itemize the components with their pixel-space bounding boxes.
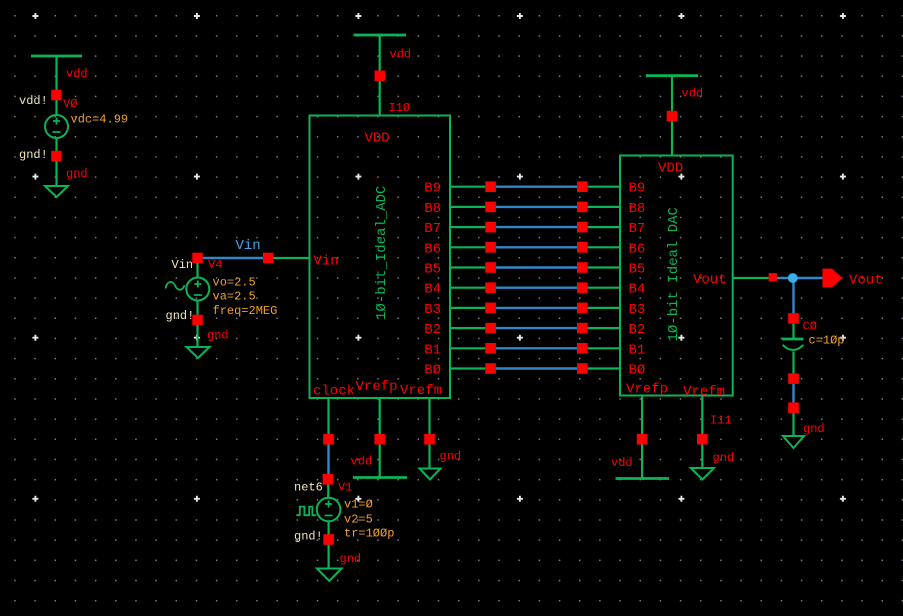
svg-text:B1: B1 — [629, 342, 646, 358]
svg-text:BØ: BØ — [629, 363, 646, 379]
wire stub B7 (DAC side) — [588, 226, 620, 228]
svg-text:clock: clock — [313, 384, 355, 400]
svg-text:gnd: gnd — [803, 422, 825, 436]
power symbol vdd (ADC Vrefp) — [353, 476, 407, 479]
pin square V0 plus terminal — [51, 90, 62, 101]
wire V1 to ground — [328, 545, 330, 569]
pin square ADC VDD supply — [375, 71, 386, 82]
wire V4 top — [196, 263, 198, 278]
svg-text:Vrefm: Vrefm — [683, 384, 725, 400]
svg-text:gnd: gnd — [340, 552, 362, 566]
svg-text:B9: B9 — [424, 181, 441, 197]
wire vdd bar to V0 plus terminal — [55, 56, 57, 116]
svg-text:B7: B7 — [424, 221, 441, 237]
wire V1 bottom — [328, 521, 330, 534]
wire Vin to ADC input — [274, 257, 310, 259]
wire B7 bus (blue) — [496, 226, 577, 228]
wire ADC Vrefm to ground — [428, 445, 430, 469]
wire B2 bus (blue) — [496, 327, 577, 329]
pin square B5 (ADC) — [485, 262, 496, 273]
pin square B2 (ADC) — [485, 323, 496, 334]
wire stub B6 (DAC side) — [588, 246, 620, 248]
svg-text:vdd: vdd — [611, 456, 633, 470]
wire stub B2 (ADC side) — [450, 327, 485, 329]
pin square C0 top terminal — [788, 313, 799, 324]
svg-text:gnd: gnd — [207, 329, 229, 343]
svg-text:gnd!: gnd! — [294, 530, 323, 544]
pin square DAC Vrefm — [697, 434, 708, 445]
svg-text:B5: B5 — [629, 262, 646, 278]
svg-text:c=1Øp: c=1Øp — [809, 334, 845, 348]
svg-text:gnd: gnd — [713, 451, 735, 465]
svg-text:1Ø-bit_Ideal_ADC: 1Ø-bit_Ideal_ADC — [374, 186, 390, 320]
svg-text:gnd!: gnd! — [19, 148, 48, 162]
wire DAC Vrefp down — [641, 396, 643, 435]
wire Vout from DAC — [733, 277, 769, 279]
wire C0 to gnd (blue net) — [792, 384, 794, 403]
pin square V4 minus terminal — [192, 315, 203, 326]
pin square B4 (ADC) — [485, 282, 496, 293]
power symbol vdd (top of ADC) — [354, 34, 407, 37]
pulse glyph of source V1 — [296, 507, 316, 516]
pin square B8 (DAC) — [577, 202, 588, 213]
wire DAC Vrefp to vdd — [641, 445, 643, 479]
wire to ground symbol — [792, 413, 794, 436]
pin square V1 minus terminal — [323, 534, 334, 545]
pin square B7 (ADC) — [485, 222, 496, 233]
svg-text:Vrefp: Vrefp — [356, 379, 398, 395]
wire B1 bus (blue) — [496, 347, 577, 349]
svg-text:B6: B6 — [424, 241, 441, 257]
pin square B0 (ADC) — [485, 363, 496, 374]
power symbol vdd (top of V0) — [31, 55, 82, 58]
pin square B0 (DAC) — [577, 363, 588, 374]
sine voltage source V4 — [186, 278, 209, 301]
svg-text:1Ø-bit Ideal DAC: 1Ø-bit Ideal DAC — [666, 207, 682, 341]
svg-text:I11: I11 — [710, 414, 732, 428]
ground symbol (V1) — [317, 569, 342, 582]
svg-text:vdd: vdd — [351, 455, 373, 469]
ground symbol (DAC Vrefm) — [691, 468, 714, 480]
bus bit B8 ADC to DAC — [424, 201, 645, 217]
svg-text:Vin: Vin — [314, 254, 339, 270]
wire B3 bus (blue) — [496, 307, 577, 309]
wire stub B3 (ADC side) — [450, 307, 485, 309]
pin square ADC Vrefm — [424, 434, 435, 445]
wire DAC Vrefm to ground — [701, 445, 703, 469]
svg-text:BØ: BØ — [424, 363, 441, 379]
ground symbol (C0) — [783, 436, 804, 448]
pin square Vin wire end — [263, 253, 274, 264]
wire DAC Vrefm down — [701, 396, 703, 435]
wire stub B8 (DAC side) — [588, 206, 620, 208]
output pin Vout (arrow) — [823, 269, 843, 288]
pin square B5 (DAC) — [577, 262, 588, 273]
wire V4 to ground — [196, 325, 198, 347]
svg-text:tr=1ØØp: tr=1ØØp — [344, 527, 394, 541]
pin square gnd wire end — [788, 402, 799, 413]
capacitor C0 — [782, 339, 803, 350]
wire stub B8 (ADC side) — [450, 206, 485, 208]
svg-text:B8: B8 — [424, 201, 441, 217]
pulse voltage source V1 — [317, 498, 341, 522]
ground symbol (V0) — [45, 186, 68, 197]
power symbol vdd (top of DAC) — [646, 74, 698, 77]
svg-text:B3: B3 — [424, 302, 441, 318]
wire stub B4 (DAC side) — [588, 287, 620, 289]
svg-text:gnd!: gnd! — [166, 309, 195, 323]
wire stub B6 (ADC side) — [450, 246, 485, 248]
svg-text:B2: B2 — [424, 322, 441, 338]
wire B4 bus (blue) — [496, 287, 577, 289]
wire stub B3 (DAC side) — [588, 307, 620, 309]
wire V4 bottom — [196, 301, 198, 316]
wire stub B5 (DAC side) — [588, 266, 620, 268]
svg-text:v1=Ø: v1=Ø — [344, 498, 373, 512]
sine glyph of source V4 — [166, 282, 185, 290]
svg-text:gnd: gnd — [66, 167, 88, 181]
bus bit B2 ADC to DAC — [424, 322, 645, 338]
pin square B6 (ADC) — [485, 242, 496, 253]
wire stub B4 (ADC side) — [450, 287, 485, 289]
wire Vout junction to cap (blue) — [792, 278, 794, 313]
pin square V4 output terminal — [192, 253, 203, 264]
svg-text:Vout: Vout — [849, 273, 883, 289]
svg-text:B6: B6 — [629, 241, 646, 257]
pin square B8 (ADC) — [485, 202, 496, 213]
bus bit B0 ADC to DAC — [424, 363, 645, 379]
svg-text:CØ: CØ — [803, 320, 817, 334]
wire B9 bus (blue) — [496, 185, 577, 187]
wire stub B1 (ADC side) — [450, 347, 485, 349]
svg-text:vdd: vdd — [682, 87, 704, 101]
bus bit B7 ADC to DAC — [424, 221, 645, 237]
wire B8 bus (blue) — [496, 206, 577, 208]
DAC body 10-bit Ideal DAC — [620, 156, 733, 396]
svg-text:va=2.5: va=2.5 — [213, 290, 256, 304]
bus bit B5 ADC to DAC — [424, 262, 645, 278]
pin square B4 (DAC) — [577, 282, 588, 293]
ground symbol (V4) — [187, 347, 210, 358]
svg-text:Vin: Vin — [236, 238, 261, 254]
svg-text:Vrefp: Vrefp — [626, 382, 668, 398]
pin square Vout (DAC side) — [769, 273, 777, 281]
wire B0 bus (blue) — [496, 367, 577, 369]
wire clock pin down — [327, 398, 329, 434]
power symbol vdd (DAC Vrefp) — [616, 477, 670, 480]
svg-text:freq=2MEG: freq=2MEG — [213, 304, 278, 318]
pin square B2 (DAC) — [577, 323, 588, 334]
wire stub B1 (DAC side) — [588, 347, 620, 349]
svg-text:Vrefm: Vrefm — [400, 383, 442, 399]
ground symbol (ADC Vrefm) — [420, 469, 441, 480]
svg-text:B9: B9 — [629, 181, 646, 197]
wire C0 top — [792, 324, 794, 339]
bus bit B1 ADC to DAC — [424, 342, 645, 358]
wire stub B7 (ADC side) — [450, 226, 485, 228]
wire ADC Vrefp down — [379, 398, 381, 434]
wire stub B5 (ADC side) — [450, 266, 485, 268]
dc voltage source V0 — [45, 115, 68, 138]
pin square V0 minus terminal — [51, 151, 62, 162]
svg-text:B8: B8 — [629, 201, 646, 217]
bus bit B6 ADC to DAC — [424, 241, 645, 257]
pin square B3 (ADC) — [485, 303, 496, 314]
svg-text:V4: V4 — [208, 258, 222, 272]
svg-text:VØ: VØ — [63, 97, 77, 111]
junction node Vout — [788, 273, 798, 283]
svg-text:vdd!: vdd! — [19, 94, 48, 108]
wire stub B2 (DAC side) — [588, 327, 620, 329]
wire clock to V1 (blue net) — [327, 445, 329, 475]
pin square DAC VDD supply — [667, 111, 678, 122]
svg-text:B4: B4 — [629, 282, 646, 298]
svg-text:Vout: Vout — [693, 272, 727, 288]
svg-text:B3: B3 — [629, 302, 646, 318]
svg-text:B4: B4 — [424, 282, 441, 298]
pin square B7 (DAC) — [577, 222, 588, 233]
wire C0 bottom — [792, 352, 794, 374]
wire ADC Vrefp to vdd — [379, 445, 381, 478]
wire ADC Vrefm down — [428, 398, 430, 434]
pin square B9 (ADC) — [485, 181, 496, 192]
svg-text:vdc=4.99: vdc=4.99 — [71, 113, 129, 127]
wire Vout (blue net) — [777, 277, 823, 279]
pin square B6 (DAC) — [577, 242, 588, 253]
svg-text:V1: V1 — [338, 481, 352, 495]
ADC body 10-bit Ideal ADC — [310, 116, 451, 399]
svg-text:B1: B1 — [424, 342, 441, 358]
svg-text:VDD: VDD — [658, 161, 683, 177]
svg-text:Vin: Vin — [172, 258, 194, 272]
pin square clock — [323, 434, 334, 445]
svg-text:vo=2.5: vo=2.5 — [213, 276, 256, 290]
pin square B1 (DAC) — [577, 343, 588, 354]
svg-text:v2=5: v2=5 — [344, 513, 373, 527]
svg-text:vdd: vdd — [66, 67, 88, 81]
svg-text:B5: B5 — [424, 262, 441, 278]
pin square B1 (ADC) — [485, 343, 496, 354]
wire stub B0 (ADC side) — [450, 367, 485, 369]
svg-text:B7: B7 — [629, 221, 646, 237]
wire V0 to ground — [55, 138, 57, 186]
wire vdd to DAC VDD pin — [671, 76, 673, 156]
wire B6 bus (blue) — [496, 246, 577, 248]
svg-text:net6: net6 — [294, 481, 323, 495]
svg-text:vdd: vdd — [390, 48, 412, 62]
wire vdd to ADC VDD pin — [379, 35, 381, 116]
pin square V1 plus terminal — [323, 474, 334, 485]
pin square B9 (DAC) — [577, 181, 588, 192]
bus bit B9 ADC to DAC — [424, 181, 645, 197]
bus bit B3 ADC to DAC — [424, 302, 645, 318]
wire V1 top — [327, 485, 329, 498]
wire Vin (blue net segment) — [203, 257, 264, 259]
pin square DAC Vrefp — [637, 434, 648, 445]
pin square ADC Vrefp — [374, 434, 385, 445]
wire stub B9 (ADC side) — [450, 186, 485, 188]
svg-text:B2: B2 — [629, 322, 646, 338]
wire stub B0 (DAC side) — [588, 367, 620, 369]
bus bit B4 ADC to DAC — [424, 282, 645, 298]
pin square B3 (DAC) — [577, 303, 588, 314]
svg-text:VDD: VDD — [365, 131, 390, 147]
pin square C0 bottom terminal — [788, 373, 799, 384]
svg-text:gnd: gnd — [440, 450, 462, 464]
wire stub B9 (DAC side) — [588, 186, 620, 188]
wire B5 bus (blue) — [496, 266, 577, 268]
svg-text:I1Ø: I1Ø — [389, 101, 411, 115]
